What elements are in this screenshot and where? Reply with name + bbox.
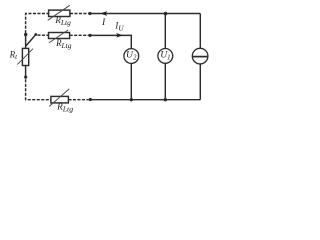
node junction: bottom rail to U2: [130, 98, 133, 101]
node: row-2 tap dot: [34, 33, 37, 36]
resistor R_Ltg3 body: [51, 96, 69, 103]
svg-text:RLtg: RLtg: [55, 38, 72, 50]
svg-text:U1: U1: [160, 49, 170, 61]
wire: row-1 dashed (R_Ltg1 to terminal): [70, 13, 89, 15]
resistor R_Ltg3 variability slash: [49, 89, 69, 107]
wire: U2 bottom lead: [130, 63, 132, 99]
wire: U1 top lead: [164, 14, 166, 49]
voltmeter U2 circle: [124, 49, 139, 64]
resistor R_Ltg1 body: [49, 10, 70, 16]
wire: row-2 dashed (tap to R_Ltg2): [37, 34, 48, 36]
resistor Rt body: [22, 48, 28, 65]
node: row-3 terminal dot: [89, 98, 92, 101]
wire: vertical from junction down to Rt: [25, 35, 27, 49]
wire: right side down to current source: [199, 14, 201, 49]
wire: U1 bottom lead: [164, 63, 166, 99]
wire: current source bottom lead: [199, 64, 201, 100]
node junction top-left: [24, 33, 27, 36]
arrow: current I_U (pointing right): [116, 33, 123, 38]
resistor R_Ltg1 variability slash: [48, 5, 70, 20]
node junction bottom-left: [24, 76, 27, 79]
wire: top-left dashed segment (junction up and right to R_Ltg1): [26, 14, 49, 34]
node junction: top rail to U1: [164, 12, 168, 16]
wire: diagonal from Rt top to row-2 tap: [26, 35, 36, 47]
resistor R_Ltg2 variability slash: [49, 30, 68, 43]
node junction: bottom rail to U1: [164, 98, 167, 101]
wire: row-1 solid line to top-right corner: [90, 13, 200, 15]
svg-text:U2: U2: [126, 50, 137, 62]
current source bar: [193, 56, 208, 58]
node: row-2 terminal dot: [88, 34, 91, 37]
wire: bottom rail solid: [90, 99, 200, 101]
node: row-1 terminal dot: [88, 12, 91, 15]
wire: bottom-left dashed segment (junction to R_Ltg3): [26, 79, 51, 99]
wire: row-3 dashed (R_Ltg3 to terminal): [68, 99, 88, 101]
svg-text:IU: IU: [114, 21, 124, 33]
wire: Rt bottom lead: [25, 66, 27, 79]
voltmeter U1 circle: [158, 49, 173, 64]
resistor R_Ltg2 body: [49, 33, 70, 39]
arrow: current I (pointing left): [100, 11, 107, 16]
svg-text:Rt: Rt: [9, 49, 19, 61]
wire: row-2 solid line to U2 branch corner: [90, 35, 131, 48]
resistor Rt variability slash: [17, 49, 33, 65]
wire: row-2 dashed (R_Ltg2 to terminal): [70, 34, 89, 36]
svg-text:I: I: [101, 17, 106, 28]
current source circle: [192, 48, 208, 64]
